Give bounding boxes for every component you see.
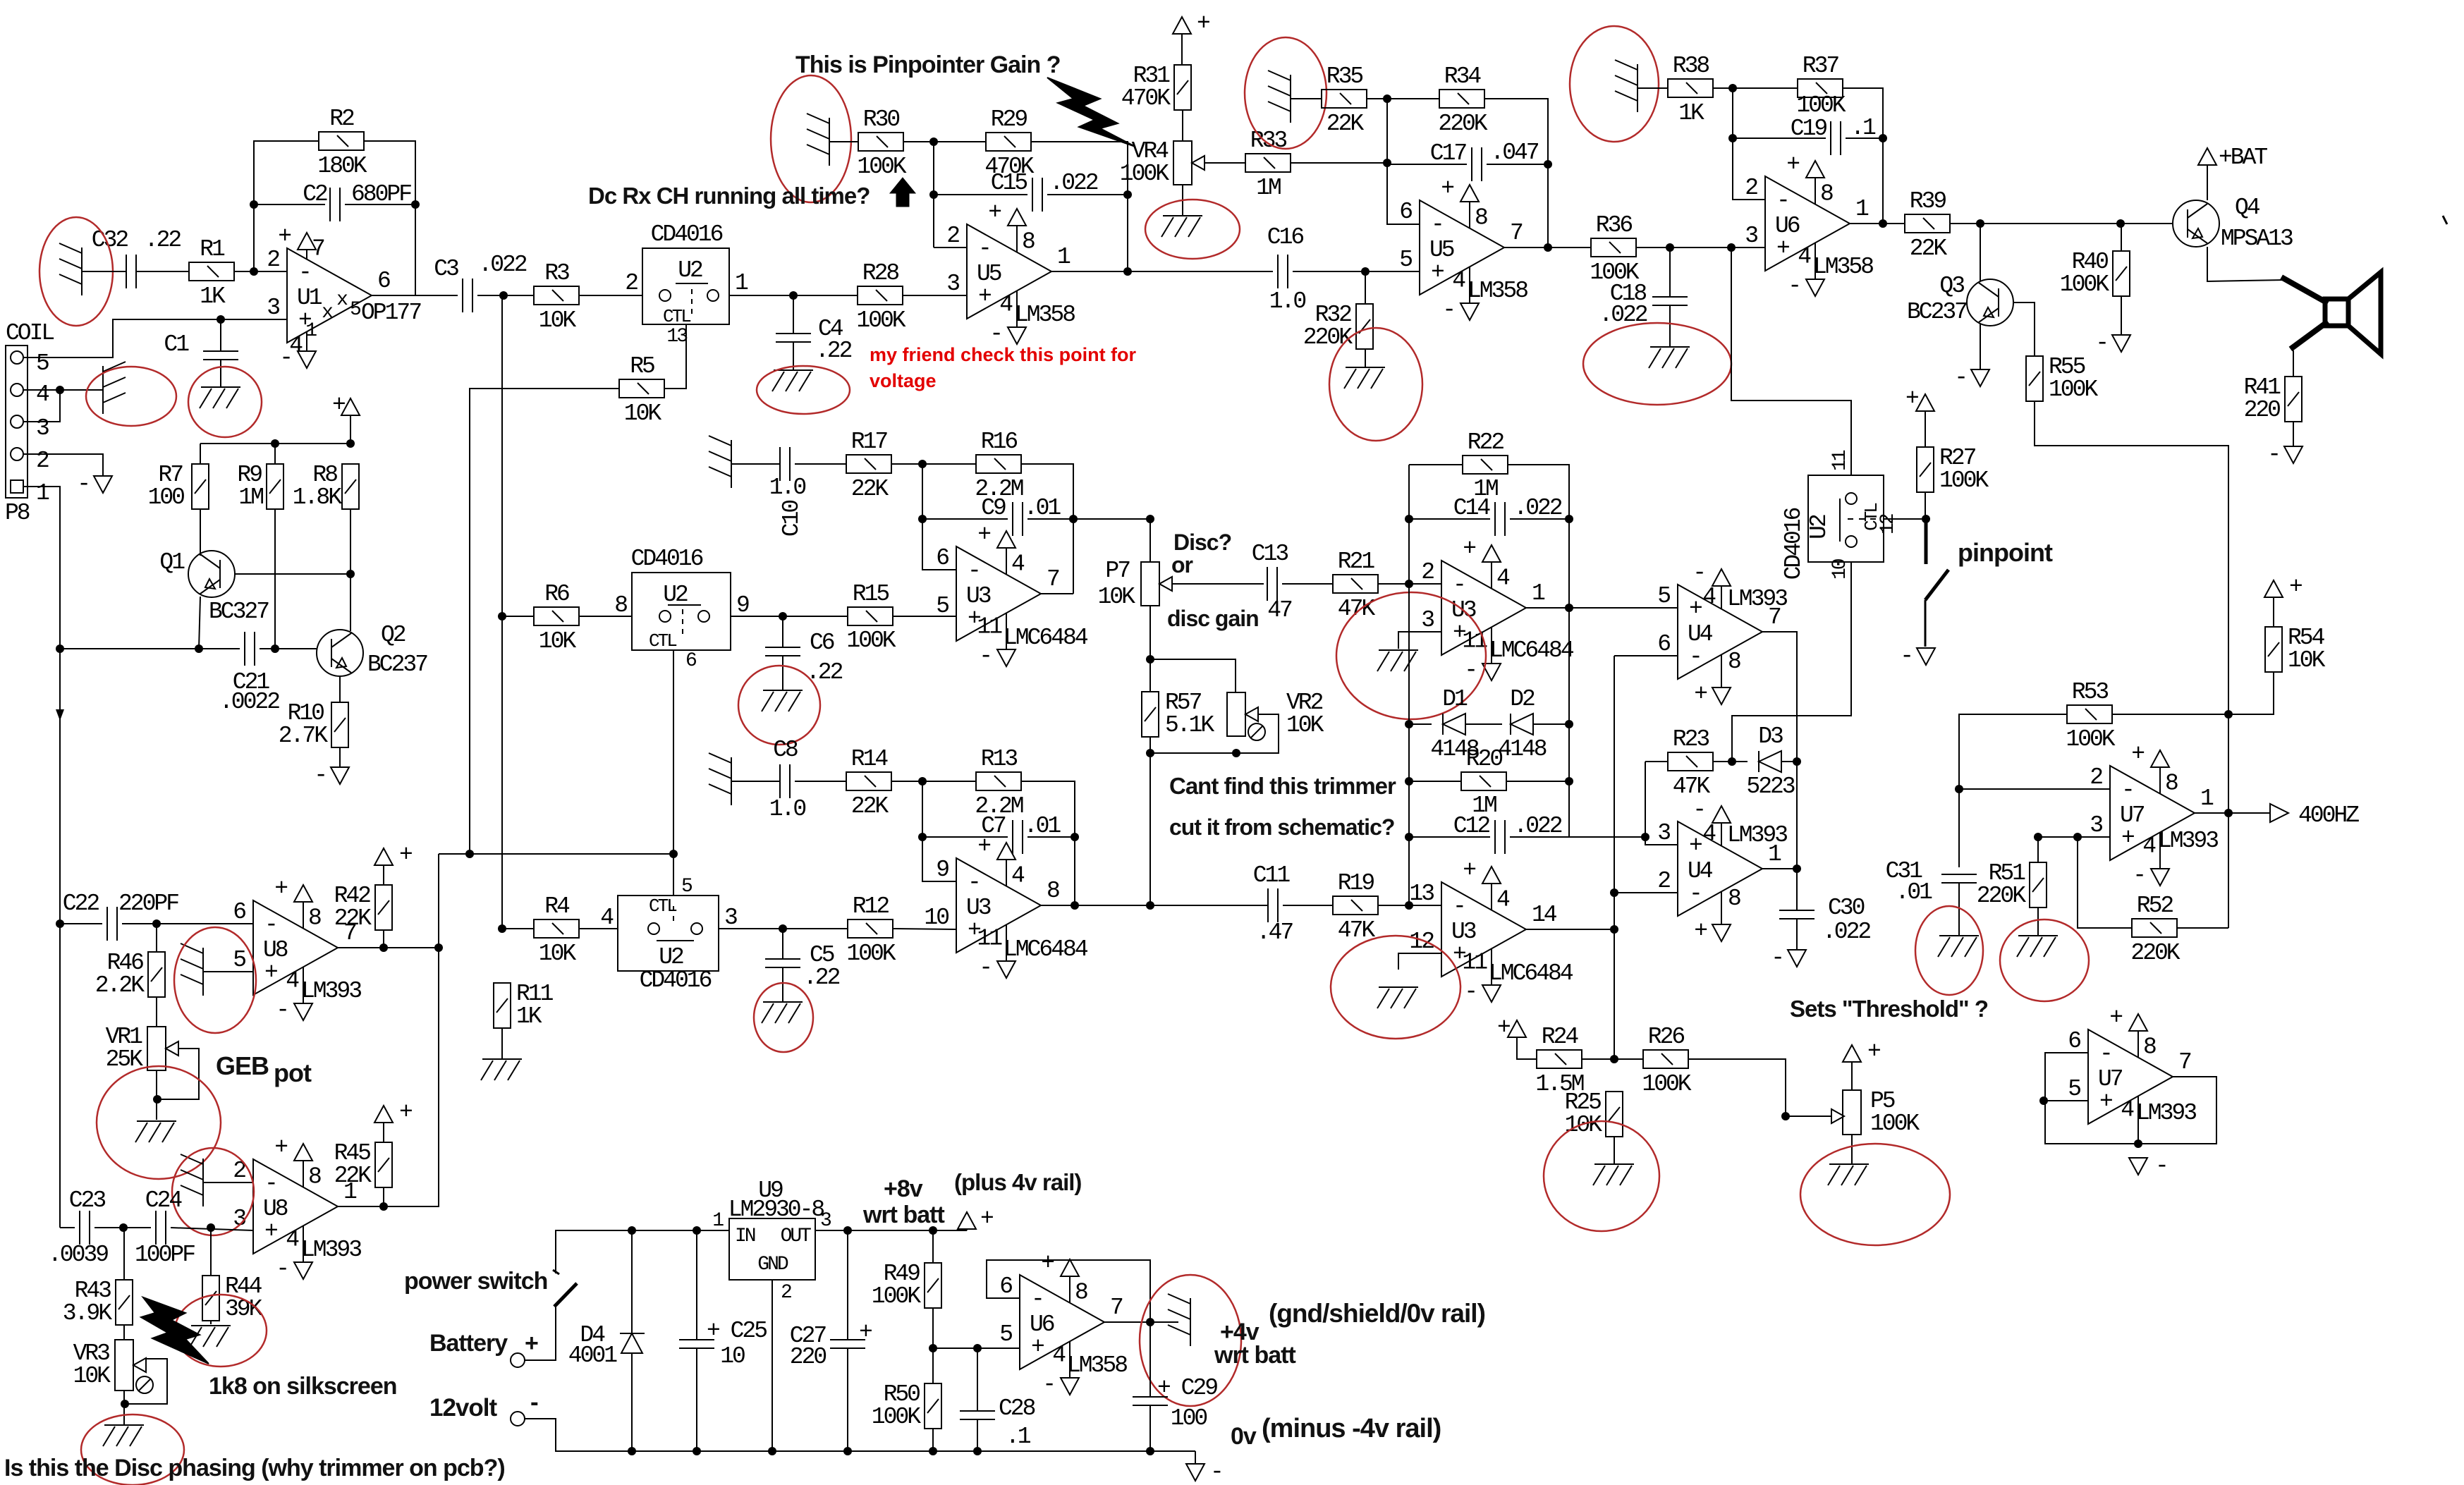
svg-text:-: - xyxy=(1776,188,1788,214)
svg-text:C10: C10 xyxy=(779,501,805,537)
ground (chassis) C6 xyxy=(762,690,803,711)
wire xyxy=(1533,723,1569,725)
svg-text:(plus 4v rail): (plus 4v rail) xyxy=(954,1169,1081,1195)
junction xyxy=(1071,833,1079,841)
wire (R8 bottom to bases) xyxy=(350,510,351,631)
svg-text:100: 100 xyxy=(1171,1405,1207,1431)
junction xyxy=(434,943,443,952)
svg-text:4: 4 xyxy=(600,905,614,931)
wire xyxy=(501,1028,503,1059)
wire xyxy=(966,1229,968,1230)
junction xyxy=(153,1095,161,1104)
svg-text:680PF: 680PF xyxy=(351,181,411,207)
resistor R14 xyxy=(846,772,891,790)
resistor R13 xyxy=(976,772,1021,790)
wire xyxy=(922,836,1008,838)
junction xyxy=(1146,901,1154,910)
junction xyxy=(1405,515,1413,523)
wire (VR2 wiper) xyxy=(1236,714,1279,753)
svg-text:220PF: 220PF xyxy=(118,891,178,917)
wire xyxy=(1713,761,1748,762)
wire xyxy=(94,1227,151,1228)
svg-text:100PF: 100PF xyxy=(135,1242,195,1268)
power arrow +BAT xyxy=(2198,148,2216,165)
svg-text:+: + xyxy=(399,1099,412,1125)
svg-text:Q3: Q3 xyxy=(1939,273,1964,299)
svg-text:1k8 on silkscreen: 1k8 on silkscreen xyxy=(209,1373,397,1400)
wire xyxy=(1959,714,2067,867)
svg-text:LM393: LM393 xyxy=(1727,586,1787,612)
svg-text:C1: C1 xyxy=(164,331,189,357)
transistor Q3 (BC237) xyxy=(1967,279,2013,326)
svg-text:10K: 10K xyxy=(624,401,662,427)
svg-text:LM393: LM393 xyxy=(301,978,361,1004)
svg-text:+: + xyxy=(977,522,990,548)
wire xyxy=(1958,883,1960,936)
wire (R9 bottom) xyxy=(274,510,276,649)
wire xyxy=(1387,164,1467,165)
svg-text:9: 9 xyxy=(936,857,949,883)
svg-text:+: + xyxy=(2121,825,2134,851)
capacitor C13 xyxy=(1267,567,1277,601)
svg-text:R13: R13 xyxy=(981,746,1018,772)
wire xyxy=(383,1187,384,1206)
junction xyxy=(693,1226,701,1235)
junction xyxy=(918,515,927,523)
junction xyxy=(918,460,927,468)
capacitor C24 xyxy=(156,1211,166,1245)
svg-text:CD4016: CD4016 xyxy=(1781,508,1807,580)
wire xyxy=(254,141,319,271)
resistor R46 xyxy=(148,952,165,997)
junction xyxy=(789,291,798,300)
wire xyxy=(891,463,976,465)
wire xyxy=(1526,929,1614,930)
wire xyxy=(525,1307,556,1360)
wire xyxy=(200,444,201,463)
junction xyxy=(1879,134,1887,142)
svg-text:+ C25: + C25 xyxy=(707,1318,767,1344)
svg-text:R53: R53 xyxy=(2072,679,2109,705)
junction xyxy=(216,315,225,324)
wire xyxy=(1851,1135,1853,1164)
op-amp U1 (OP177) xyxy=(287,248,372,351)
wire xyxy=(1409,781,1461,782)
red annotation ellipse xyxy=(771,75,851,202)
capacitor C5 xyxy=(765,959,800,967)
svg-text:8: 8 xyxy=(1728,886,1740,912)
junction xyxy=(411,200,420,209)
svg-text:-: - xyxy=(978,236,990,262)
transistor Q2 (BC237) xyxy=(317,630,363,676)
capacitor C21 xyxy=(245,632,255,666)
svg-text:R19: R19 xyxy=(1338,870,1374,896)
svg-text:8: 8 xyxy=(1022,229,1035,255)
wire (R52 feedback) xyxy=(2078,837,2132,928)
svg-text:CD4016: CD4016 xyxy=(631,546,703,572)
capacitor C4 xyxy=(776,334,811,342)
op-amp U3 (LMC6484) xyxy=(1441,561,1526,664)
svg-text:U4: U4 xyxy=(1688,621,1713,647)
svg-text:1: 1 xyxy=(712,1210,724,1232)
svg-text:4: 4 xyxy=(1052,1342,1066,1368)
junction xyxy=(56,386,64,394)
diode D1 xyxy=(1443,714,1465,735)
op-amp U6 (LM358) xyxy=(1765,176,1850,279)
wire xyxy=(2037,908,2039,936)
potentiometer VR1 xyxy=(147,1027,178,1070)
svg-text:3: 3 xyxy=(36,415,49,441)
wire xyxy=(234,271,287,272)
wire xyxy=(782,616,783,647)
svg-text:2.2K: 2.2K xyxy=(95,972,145,998)
resistor R15 xyxy=(848,607,893,625)
wire xyxy=(1733,137,1826,139)
wire xyxy=(1182,185,1183,216)
junction xyxy=(1544,160,1552,169)
capacitor C12 xyxy=(1495,820,1505,854)
wire xyxy=(631,1353,633,1451)
resistor R25 xyxy=(1606,1092,1623,1137)
svg-text:7: 7 xyxy=(2178,1049,2191,1075)
svg-text:6: 6 xyxy=(936,545,949,571)
wire (Q1 emitter) xyxy=(199,597,200,649)
svg-text:.047: .047 xyxy=(1490,140,1538,166)
svg-text:-: - xyxy=(264,1171,276,1197)
svg-text:22K: 22K xyxy=(1910,236,1948,262)
junction xyxy=(1781,1112,1790,1120)
wire xyxy=(1149,1405,1151,1451)
op-amp U7 (LM393) xyxy=(2110,766,2195,869)
svg-text:1.0: 1.0 xyxy=(769,796,806,822)
red annotation ellipse xyxy=(174,927,256,1033)
svg-text:220K: 220K xyxy=(1977,883,2026,909)
svg-text:C14: C14 xyxy=(1453,495,1491,521)
wire xyxy=(171,1228,253,1230)
wire xyxy=(1149,737,1151,905)
wire (VR1 wiper) xyxy=(157,1049,199,1099)
resistor R1 xyxy=(189,262,234,281)
resistor R34 xyxy=(1439,90,1484,108)
svg-text:disc gain: disc gain xyxy=(1167,606,1259,631)
wire xyxy=(254,204,325,205)
svg-text:pot: pot xyxy=(274,1058,312,1087)
svg-text:9: 9 xyxy=(736,592,749,618)
red annotation ellipse xyxy=(738,666,820,745)
svg-text:2: 2 xyxy=(1421,559,1434,585)
svg-text:C22: C22 xyxy=(63,891,99,917)
junction xyxy=(1123,267,1132,276)
svg-text:-: - xyxy=(1464,657,1476,683)
diode D2 xyxy=(1511,714,1533,735)
svg-text:U4: U4 xyxy=(1688,858,1713,884)
wire xyxy=(1181,33,1183,65)
wire xyxy=(922,464,956,570)
svg-text:OP177: OP177 xyxy=(361,300,421,326)
junction xyxy=(1793,864,1801,873)
ground (chassis) U3 pin3 xyxy=(1377,650,1418,671)
ground arrow - R10 xyxy=(331,767,349,784)
junction xyxy=(1146,515,1154,523)
svg-text:4148: 4148 xyxy=(1498,736,1546,762)
svg-text:BC237: BC237 xyxy=(1907,299,1967,325)
svg-text:2: 2 xyxy=(36,448,49,474)
svg-text:+: + xyxy=(988,200,1001,226)
wire xyxy=(731,463,780,465)
svg-text:Disc?: Disc? xyxy=(1173,530,1231,555)
capacitor C16 xyxy=(1278,255,1288,288)
wire (U3c inverting node) xyxy=(1408,465,1410,905)
svg-text:5: 5 xyxy=(233,947,245,973)
svg-text:5.1K: 5.1K xyxy=(1165,712,1214,738)
wire xyxy=(2112,714,2228,715)
svg-text:4: 4 xyxy=(1452,267,1465,293)
ground (chassis) C31 xyxy=(1938,936,1979,957)
svg-text:+: + xyxy=(1497,1015,1510,1041)
svg-text:R29: R29 xyxy=(991,106,1027,133)
junction xyxy=(1361,267,1370,276)
black arrow annotation xyxy=(890,178,915,207)
resistor R35 xyxy=(1322,90,1367,108)
wire xyxy=(847,1230,848,1340)
svg-text:100K: 100K xyxy=(872,1283,921,1309)
svg-text:3: 3 xyxy=(946,271,959,297)
resistor R49 xyxy=(925,1263,941,1308)
svg-text:+8v: +8v xyxy=(884,1175,923,1202)
junction xyxy=(2039,1096,2048,1105)
svg-text:47: 47 xyxy=(1267,597,1292,623)
svg-text:or: or xyxy=(1171,552,1193,577)
svg-text:22K: 22K xyxy=(1326,111,1365,137)
wire xyxy=(579,295,642,296)
wire xyxy=(122,923,253,924)
svg-text:8: 8 xyxy=(614,592,627,618)
svg-text:4: 4 xyxy=(1011,551,1025,577)
svg-text:.0022: .0022 xyxy=(219,689,279,715)
svg-text:13: 13 xyxy=(666,326,688,348)
svg-text:(gnd/shield/0v rail): (gnd/shield/0v rail) xyxy=(1269,1299,1485,1328)
junction xyxy=(207,1223,215,1232)
wire xyxy=(1409,518,1490,520)
wire xyxy=(383,1123,384,1142)
wire xyxy=(579,928,618,929)
wire xyxy=(345,204,415,205)
svg-text:2: 2 xyxy=(946,223,959,249)
junction xyxy=(1793,757,1801,766)
svg-text:+: + xyxy=(1694,681,1707,707)
junction xyxy=(779,924,787,933)
svg-text:14: 14 xyxy=(1532,902,1557,928)
red annotation ellipse xyxy=(754,983,813,1052)
analog switch U2 CD4016 (section A) xyxy=(642,248,729,324)
resistor R26 xyxy=(1643,1050,1688,1068)
wire xyxy=(1367,98,1439,99)
svg-text:-: - xyxy=(1689,644,1701,670)
op-amp U3 (LMC6484) xyxy=(1441,882,1526,985)
svg-text:6: 6 xyxy=(377,268,390,294)
wire xyxy=(934,247,967,248)
wire xyxy=(1047,194,1128,195)
junction xyxy=(1610,1055,1618,1063)
svg-text:Battery: Battery xyxy=(429,1330,508,1357)
junction xyxy=(499,291,508,300)
svg-text:C8: C8 xyxy=(773,737,798,763)
resistor R8 xyxy=(342,464,359,509)
svg-text:22K: 22K xyxy=(851,476,889,502)
battery - terminal xyxy=(511,1412,525,1426)
voltage regulator U9 LM2930-8 xyxy=(729,1218,815,1280)
resistor R50 xyxy=(925,1383,941,1429)
junction xyxy=(152,919,161,928)
ground arrow - R40 xyxy=(2112,335,2130,352)
wire xyxy=(782,656,783,690)
svg-text:1.8K: 1.8K xyxy=(293,484,342,511)
wire xyxy=(1781,761,1797,762)
svg-text:+: + xyxy=(332,392,345,418)
wire xyxy=(933,1347,1020,1349)
wire xyxy=(364,141,415,295)
resistor R17 xyxy=(846,455,891,473)
wire xyxy=(1293,271,1420,272)
wire xyxy=(1637,87,1668,89)
svg-text:LM358: LM358 xyxy=(1813,254,1873,280)
wire xyxy=(782,929,783,959)
svg-text:LM393: LM393 xyxy=(1727,822,1787,848)
svg-text:7: 7 xyxy=(1510,220,1523,246)
svg-text:BC327: BC327 xyxy=(209,599,269,625)
svg-text:+: + xyxy=(264,1218,277,1245)
op-amp U7 (LM393) xyxy=(2088,1029,2173,1124)
svg-text:+: + xyxy=(1867,1039,1880,1065)
wire xyxy=(339,747,341,767)
junction xyxy=(56,644,64,653)
svg-text:-: - xyxy=(1788,273,1800,299)
capacitor C23 xyxy=(80,1211,90,1245)
svg-text:4: 4 xyxy=(1496,887,1510,913)
svg-text:x: x xyxy=(336,289,348,311)
svg-text:pinpoint: pinpoint xyxy=(1958,538,2053,567)
svg-text:.022: .022 xyxy=(478,252,526,278)
ground (antenna) at U8 pin2 xyxy=(181,1154,203,1206)
wire xyxy=(372,295,458,296)
junction xyxy=(1728,757,1736,766)
svg-text:-: - xyxy=(276,1256,288,1282)
svg-text:2: 2 xyxy=(781,1282,791,1304)
ground arrow - R41 xyxy=(2284,446,2303,463)
svg-text:1M: 1M xyxy=(238,484,263,511)
wire (CTL pin13 to R5) xyxy=(664,324,686,389)
svg-text:-: - xyxy=(2155,1153,2167,1179)
svg-text:2: 2 xyxy=(2090,764,2102,790)
svg-text:8: 8 xyxy=(2143,1034,2156,1061)
resistor R41 xyxy=(2285,377,2302,422)
capacitor C28 xyxy=(960,1411,995,1419)
wire xyxy=(210,1228,212,1275)
junction xyxy=(1728,84,1737,92)
svg-text:U3: U3 xyxy=(1451,919,1476,945)
svg-text:1: 1 xyxy=(36,480,49,506)
svg-text:-: - xyxy=(1431,212,1443,238)
junction xyxy=(379,1202,388,1211)
ground (chassis) U3 pin12 xyxy=(1377,987,1418,1008)
red annotation ellipse xyxy=(172,1148,254,1235)
junction xyxy=(669,850,678,858)
svg-text:-: - xyxy=(276,997,288,1023)
wire (C22 row) xyxy=(60,923,102,924)
capacitor C6 xyxy=(765,647,800,656)
resistor R5 xyxy=(619,379,664,398)
svg-text:8: 8 xyxy=(2165,771,2178,797)
svg-text:100K: 100K xyxy=(1939,468,1989,494)
wire xyxy=(1150,752,1236,754)
junction xyxy=(1383,159,1391,167)
wire xyxy=(23,454,103,476)
svg-text:6: 6 xyxy=(999,1273,1012,1300)
svg-text:100K: 100K xyxy=(1870,1111,1920,1137)
switch SW power xyxy=(553,1270,577,1307)
svg-text:C12: C12 xyxy=(1453,813,1490,839)
wire xyxy=(1378,583,1441,585)
svg-text:6: 6 xyxy=(685,650,696,672)
capacitor C3 xyxy=(463,279,472,312)
ground (chassis) R25 xyxy=(1593,1164,1634,1185)
wire xyxy=(1484,99,1548,248)
svg-text:13: 13 xyxy=(1409,881,1434,907)
red annotation ellipse xyxy=(1331,936,1460,1039)
svg-text:U5: U5 xyxy=(1429,237,1454,263)
svg-text:22K: 22K xyxy=(334,1163,372,1189)
wire (Q4 emitter to speaker) xyxy=(2207,247,2285,281)
red annotation ellipse xyxy=(1800,1144,1950,1245)
svg-text:.022: .022 xyxy=(1513,813,1561,839)
svg-text:100K: 100K xyxy=(1796,92,1846,118)
junction xyxy=(1405,580,1413,588)
wire xyxy=(210,1321,212,1324)
wire xyxy=(893,616,956,617)
wire xyxy=(1796,869,1798,910)
junction xyxy=(1123,190,1132,199)
wire xyxy=(260,648,317,649)
resistor R4 xyxy=(534,919,579,938)
svg-text:Q4: Q4 xyxy=(2235,195,2260,221)
svg-text:R12: R12 xyxy=(853,893,889,919)
svg-text:7: 7 xyxy=(1110,1295,1123,1321)
svg-text:-: - xyxy=(1464,979,1476,1005)
svg-text:R6: R6 xyxy=(544,581,569,607)
ground (chassis) C5 xyxy=(762,1002,803,1023)
junction xyxy=(973,1344,982,1352)
svg-text:+: + xyxy=(2289,574,2302,600)
svg-text:CD4016: CD4016 xyxy=(651,221,723,248)
wire xyxy=(1039,593,1073,594)
svg-text:100: 100 xyxy=(148,484,185,511)
wire xyxy=(383,930,384,948)
wire xyxy=(1925,411,1926,447)
svg-text:IN: IN xyxy=(735,1226,755,1247)
junction xyxy=(1405,777,1413,786)
svg-text:2: 2 xyxy=(1657,868,1670,894)
power + arrow at R45 xyxy=(374,1106,393,1123)
svg-text:This is Pinpointer Gain ?: This is Pinpointer Gain ? xyxy=(795,51,1060,78)
wire xyxy=(1021,781,1075,905)
wire xyxy=(847,1348,848,1451)
svg-text:wrt batt: wrt batt xyxy=(1214,1342,1295,1369)
svg-text:C9: C9 xyxy=(981,495,1006,521)
wire xyxy=(203,971,253,972)
wire xyxy=(2035,401,2228,928)
svg-text:GND: GND xyxy=(757,1254,788,1276)
wire xyxy=(156,997,157,1027)
